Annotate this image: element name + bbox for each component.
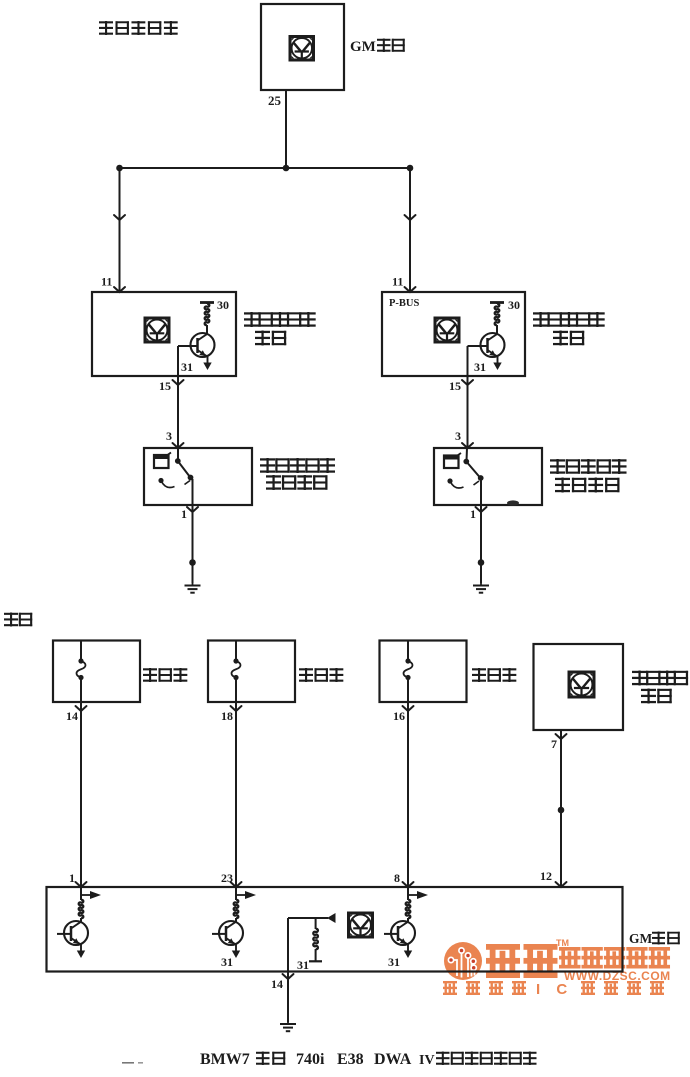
terminal 30 bar driver module: [200, 301, 214, 304]
lamp symbol in passenger door module: [435, 318, 459, 342]
signal arrow inside pin 23: [236, 891, 256, 899]
resistor coil pin 1: [79, 887, 84, 918]
svg-text:DWA: DWA: [374, 1051, 412, 1068]
label 31 passenger module: [474, 360, 486, 374]
label 模块 instrument: [641, 689, 672, 704]
wire fuse F1 to GM computer: [80, 702, 82, 887]
horn drive node wires: [288, 918, 328, 971]
lamp symbol in GM computer: [349, 913, 373, 937]
terminal 30 bar passenger module: [490, 301, 504, 304]
ground passenger: [473, 583, 489, 593]
svg-text:31: 31: [388, 955, 400, 969]
arrow pin1 driver switch: [187, 507, 198, 512]
arrow on wire passenger: [405, 215, 416, 220]
svg-text:TM: TM: [556, 938, 569, 948]
arrow below fuse F2: [231, 706, 242, 711]
stray mark bottom left: [122, 1062, 143, 1064]
label 1 passenger switch: [470, 507, 476, 521]
watermark text 电子市场网: [559, 947, 670, 969]
svg-text:14: 14: [271, 977, 283, 991]
instrument control module box: [534, 644, 624, 730]
splice dot driver ground wire: [189, 559, 196, 566]
arrow below instrument module: [556, 734, 567, 739]
label 电源: [4, 613, 32, 627]
wire base to pin15 passenger module: [468, 346, 489, 376]
label 31 horn branch: [297, 958, 309, 972]
watermark url WWW.DZSC.COM: [564, 969, 671, 983]
pin 8 label bottom box: [394, 871, 400, 885]
pin 14 label: [66, 709, 78, 723]
GM computer main box: [47, 887, 623, 972]
ground driver: [185, 583, 201, 593]
label 模块 driver door: [255, 331, 286, 346]
signal arrow inside pin 8: [408, 891, 428, 899]
splice dot passenger ground wire: [478, 559, 485, 566]
arrow below fuse F3: [403, 706, 414, 711]
label GM电脑 top: [350, 39, 405, 56]
splice dot instrument wire: [558, 807, 565, 814]
fuse F1 box: [53, 641, 140, 703]
resistor coil pin 8: [406, 887, 411, 918]
window icon driver switch: [153, 453, 171, 469]
arrow pin1 passenger switch: [476, 507, 487, 512]
svg-text:IV: IV: [419, 1053, 435, 1068]
lamp symbol in driver door module: [145, 318, 169, 342]
blob artifact on passenger switch box edge: [507, 500, 519, 505]
arrow entering pin 1: [76, 882, 87, 887]
fuse F3 element: [404, 641, 413, 703]
wire switch to pin1 passenger: [480, 479, 482, 505]
label 指示开关 passenger: [555, 478, 620, 493]
label 15 driver: [159, 379, 171, 393]
svg-text:GM: GM: [629, 931, 653, 946]
label 31 under Q5: [388, 955, 400, 969]
svg-text:15: 15: [159, 379, 171, 393]
transistor Q4 bottom: [212, 918, 243, 958]
watermark text 维库: [486, 938, 569, 978]
arrow pin14: [283, 974, 294, 979]
svg-text:31: 31: [221, 955, 233, 969]
svg-text:8: 8: [394, 871, 400, 885]
svg-text:I C: I C: [536, 981, 573, 998]
label 30 passenger module: [508, 298, 520, 312]
switch arc arrow passenger: [447, 478, 479, 488]
resistor coil horn branch: [313, 918, 318, 961]
label 30 driver module: [217, 298, 229, 312]
arrow entering pin 8: [403, 882, 414, 887]
arrow entering passenger switch: [462, 443, 473, 448]
pin 11 label right: [392, 275, 403, 289]
title text: [200, 1051, 537, 1068]
svg-text:3: 3: [166, 429, 172, 443]
svg-text:7: 7: [551, 737, 557, 751]
svg-text:14: 14: [66, 709, 78, 723]
pin 25 label: [268, 93, 282, 108]
arrow entering passenger module: [405, 287, 416, 292]
transistor Q5 bottom: [384, 918, 415, 958]
watermark logo circle: [444, 942, 482, 980]
wire bus to driver door module: [119, 168, 121, 292]
wire into driver switch: [177, 448, 179, 460]
arrow entering driver switch: [173, 443, 184, 448]
wire passenger module to switch: [467, 376, 469, 448]
wire bus to passenger door module: [409, 168, 411, 292]
resistor coil driver module: [205, 302, 210, 335]
switch contact driver: [175, 458, 194, 480]
svg-text:P-BUS: P-BUS: [389, 298, 419, 309]
svg-text:740i: 740i: [296, 1051, 325, 1068]
wire instrument module to GM computer: [560, 730, 562, 887]
label 保险丝 F2: [299, 668, 343, 682]
svg-text:11: 11: [101, 275, 112, 289]
wire fuse F3 to GM computer: [407, 702, 409, 887]
transistor Q3 bottom: [57, 918, 88, 958]
svg-text:31: 31: [474, 360, 486, 374]
switch contact passenger: [463, 459, 483, 481]
pin 12 label: [540, 869, 552, 883]
svg-text:11: 11: [392, 275, 403, 289]
arrow pin15 driver: [173, 380, 184, 385]
svg-text:25: 25: [268, 93, 282, 108]
indicator lamp symbol in U1: [290, 37, 314, 61]
arrow entering driver module: [114, 287, 125, 292]
label 驾驶座车窗: [260, 458, 335, 473]
pin 7 label: [551, 737, 557, 751]
label 保险丝 F3: [472, 668, 516, 682]
svg-text:18: 18: [221, 709, 233, 723]
svg-text:30: 30: [508, 298, 520, 312]
pin 1 label bottom box: [69, 871, 75, 885]
fuse F3 box: [380, 641, 467, 703]
arrow pin15 passenger: [462, 380, 473, 385]
svg-text:15: 15: [449, 379, 461, 393]
label 15 passenger: [449, 379, 461, 393]
transistor Q1 driver module: [191, 333, 215, 370]
svg-text:E38: E38: [337, 1051, 364, 1068]
svg-text:1: 1: [69, 871, 75, 885]
arrow entering pin 23: [231, 882, 242, 887]
terminal 31 bar horn: [309, 960, 322, 962]
fuse F1 element: [77, 641, 86, 703]
junction dot left: [116, 165, 123, 172]
svg-text:GM: GM: [350, 39, 376, 55]
pin 23 label bottom box: [221, 871, 233, 885]
window icon passenger switch: [443, 453, 461, 468]
arrow on wire: [114, 215, 125, 220]
svg-text:31: 31: [181, 360, 193, 374]
label 1 driver switch: [181, 507, 187, 521]
svg-text:16: 16: [393, 709, 405, 723]
label 模块 passenger door: [553, 331, 584, 346]
wire driver switch to ground: [192, 505, 194, 583]
watermark text 全球最大IC采购网站: [443, 981, 664, 998]
wire U1 pin25 down to bus: [285, 90, 287, 168]
signal arrow inside pin 1: [81, 891, 101, 899]
fuse F2 element: [232, 641, 241, 703]
wire base to pin15 driver module: [178, 346, 198, 376]
svg-text:12: 12: [540, 869, 552, 883]
label P-BUS: [389, 298, 419, 309]
svg-text:1: 1: [470, 507, 476, 521]
label 31 driver module: [181, 360, 193, 374]
pin 16 label: [393, 709, 405, 723]
wire fuse F2 to GM computer: [235, 702, 237, 887]
label 仪表控制: [632, 671, 688, 686]
ground main: [280, 1022, 296, 1031]
label GM电脑 bottom: [629, 931, 680, 946]
arrow entering pin 12: [556, 882, 567, 887]
wire switch to pin1 driver: [192, 479, 194, 505]
wire pin14 to ground: [287, 971, 289, 1022]
driver door module box: [92, 292, 236, 376]
passenger window switch box: [434, 448, 542, 505]
horn arrow triangle: [327, 913, 336, 923]
transistor Q2 passenger module: [481, 333, 505, 370]
label 乘客座车窗: [550, 459, 627, 474]
label 14 below GM computer: [271, 977, 283, 991]
module U1 GM computer box: [261, 4, 344, 90]
wire into passenger switch: [466, 448, 469, 461]
passenger door module box: [382, 292, 525, 376]
resistor coil passenger module: [495, 302, 500, 335]
svg-text:BMW7: BMW7: [200, 1051, 250, 1068]
driver window switch box: [144, 448, 252, 505]
fuse F2 box: [208, 641, 295, 703]
wire driver module to switch: [177, 376, 179, 448]
lamp symbol in instrument module: [569, 672, 594, 697]
junction dot right: [407, 165, 414, 172]
wire passenger switch to ground: [480, 505, 482, 583]
svg-text:30: 30: [217, 298, 229, 312]
bus wire horizontal: [119, 167, 410, 169]
junction dot middle: [283, 165, 290, 172]
pin 3 label passenger switch: [455, 429, 461, 443]
label 驾驶座车门: [244, 312, 316, 327]
pin 18 label: [221, 709, 233, 723]
svg-text:3: 3: [455, 429, 461, 443]
label 保险丝 F1: [143, 668, 187, 682]
pin 3 label driver switch: [166, 429, 172, 443]
label 31 under Q4: [221, 955, 233, 969]
label 指示开关 driver: [266, 475, 327, 490]
switch arc arrow driver: [158, 478, 190, 488]
label 乘客座车门: [533, 312, 605, 327]
svg-text:1: 1: [181, 507, 187, 521]
arrow below fuse F1: [76, 706, 87, 711]
svg-text:31: 31: [297, 958, 309, 972]
pin 11 label left: [101, 275, 112, 289]
resistor coil pin 23: [234, 887, 239, 918]
label 前窗指示器: [99, 21, 178, 35]
